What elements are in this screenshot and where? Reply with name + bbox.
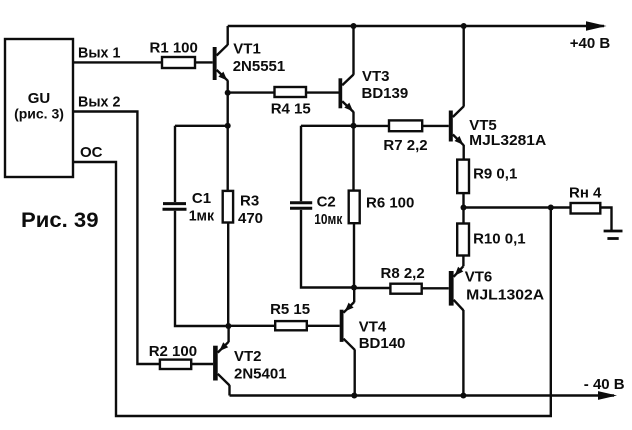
svg-text:- 40 В: - 40 В: [584, 376, 625, 393]
wire VT5 emitter to R9: [463, 145, 465, 160]
wire R1 to VT1 base: [195, 61, 213, 63]
transistor VT1: [213, 45, 228, 81]
junction dot rail-VT5: [461, 23, 467, 29]
GU box: [5, 39, 73, 177]
wire VT2 collector to -40 rail: [228, 385, 230, 395]
wire VT4 emitter to node D: [353, 288, 355, 303]
svg-text:VT4: VT4: [359, 319, 387, 336]
wire R9 to output node: [462, 193, 464, 207]
resistor Rн: [571, 203, 601, 214]
resistor R7: [389, 120, 422, 131]
wire R5 to VT4 base: [307, 325, 340, 327]
wire VT3 collector to rail: [352, 26, 354, 75]
junction dot VT6 rail: [460, 393, 466, 399]
wire R10 to VT6 emitter: [462, 256, 464, 267]
svg-text:R6 100: R6 100: [366, 195, 414, 212]
node A dot VT1 emitter: [225, 90, 231, 96]
svg-text:ОС: ОС: [80, 144, 103, 161]
wire R6 bottom to node D: [353, 223, 355, 287]
svg-text:GU: GU: [28, 90, 51, 107]
svg-text:2N5401: 2N5401: [234, 366, 287, 383]
wire R6 top to node B: [352, 126, 354, 191]
svg-text:R3: R3: [240, 193, 259, 210]
svg-text:BD139: BD139: [362, 85, 409, 102]
svg-text:BD140: BD140: [359, 335, 406, 352]
wire R7 to VT5 base: [422, 125, 449, 127]
node D dot: [351, 285, 357, 291]
wire VT1 collector to +40 rail: [226, 26, 228, 45]
transistor VT5: [449, 106, 464, 145]
svg-text:470: 470: [238, 210, 263, 227]
svg-text:2N5551: 2N5551: [233, 58, 286, 75]
wire C1 top horizontal: [175, 125, 228, 127]
wire C1 bottom to node C: [175, 211, 228, 326]
svg-text:VT1: VT1: [233, 40, 261, 57]
+40V rail: [228, 25, 604, 27]
svg-text:R1 100: R1 100: [150, 40, 198, 57]
resistor R4: [275, 87, 307, 97]
feedback tap dot: [548, 205, 554, 211]
svg-text:C2: C2: [317, 193, 336, 210]
resistor R6: [349, 191, 360, 224]
svg-text:VT3: VT3: [362, 68, 390, 85]
wire node C to R5: [228, 325, 275, 327]
svg-text:+40 В: +40 В: [570, 35, 611, 52]
transistor VT6: [449, 266, 464, 310]
wire VT5 collector to rail: [463, 26, 465, 107]
wire Вых2 GU to R2: [73, 112, 160, 365]
svg-text:R9 0,1: R9 0,1: [473, 165, 517, 182]
wire C2 top horizontal: [301, 125, 354, 127]
svg-text:Вых 2: Вых 2: [78, 94, 120, 111]
node C dot: [225, 323, 231, 329]
junction dot rail-VT3: [351, 23, 357, 29]
svg-text:Рис. 39: Рис. 39: [21, 209, 99, 232]
wire R10 top: [462, 208, 464, 224]
capacitor C2: [290, 126, 312, 209]
svg-text:R7 2,2: R7 2,2: [383, 137, 427, 154]
wire R8 to VT6 base: [422, 287, 449, 289]
svg-text:R8 2,2: R8 2,2: [381, 265, 425, 282]
svg-text:VT6: VT6: [465, 268, 493, 285]
output node dot: [461, 205, 467, 211]
node VT1-C1 dot: [225, 123, 231, 129]
ground: [604, 231, 623, 239]
svg-text:Rн 4: Rн 4: [569, 185, 602, 202]
wire R3 top: [226, 126, 228, 191]
svg-text:R2 100: R2 100: [149, 343, 197, 360]
resistor R3: [223, 191, 233, 223]
transistor VT3: [339, 75, 354, 113]
svg-text:1мк: 1мк: [189, 208, 215, 225]
wire Вых1 GU to R1: [73, 61, 162, 63]
capacitor C1: [163, 126, 187, 209]
svg-text:VT2: VT2: [234, 348, 262, 365]
wire VT3 emitter to node B: [352, 112, 354, 126]
output line to Rн: [464, 206, 571, 208]
wire C2 bottom to node D: [301, 210, 354, 288]
wire VT1 emitter to node A: [226, 80, 228, 92]
resistor R1: [162, 57, 195, 68]
svg-text:R10 0,1: R10 0,1: [473, 230, 526, 247]
wire node A to R4: [228, 91, 275, 93]
wire R2 to VT2 base: [191, 363, 213, 365]
transistor VT4: [340, 302, 355, 350]
resistor R9: [457, 160, 469, 194]
+40V rail arrowhead: [586, 21, 607, 30]
transistor VT2: [213, 342, 229, 386]
svg-text:10мк: 10мк: [314, 211, 342, 228]
wire R3 bottom to node C: [227, 223, 229, 327]
wire node B to R7: [354, 125, 390, 127]
-40V rail: [230, 394, 615, 396]
svg-text:R5 15: R5 15: [270, 301, 310, 318]
wire node A down to C1 node: [226, 93, 228, 126]
wire VT4 collector to -40 rail: [354, 350, 356, 396]
resistor R2: [160, 360, 191, 369]
-40V rail arrowhead: [598, 391, 617, 400]
svg-text:R4 15: R4 15: [271, 100, 311, 117]
resistor R8: [390, 284, 421, 294]
svg-text:(рис. 3): (рис. 3): [14, 106, 64, 122]
node B dot: [351, 123, 357, 129]
wire Rн to ground: [600, 208, 611, 231]
svg-text:C1: C1: [192, 190, 211, 207]
wire ОС feedback loop: [73, 162, 551, 416]
junction dot VT4 rail: [351, 393, 357, 399]
wire R4 to VT3 base: [306, 91, 339, 93]
wire VT6 collector to -40 rail: [462, 310, 464, 396]
resistor R5: [275, 321, 307, 330]
svg-text:MJL1302A: MJL1302A: [466, 287, 544, 304]
svg-text:Вых 1: Вых 1: [78, 44, 120, 61]
wire node D to R8: [354, 287, 390, 289]
wire VT2 emitter to node C: [227, 326, 229, 342]
svg-text:MJL3281A: MJL3281A: [469, 132, 546, 149]
resistor R10: [457, 224, 469, 256]
